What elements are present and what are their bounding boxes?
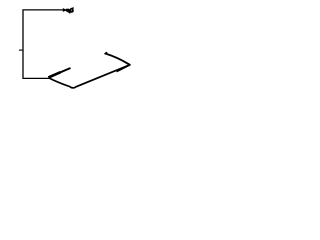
loop front edge A-B-C with bend at B	[49, 65, 130, 88]
wire: support frame (top rail, vertical post, bottom rail)	[23, 10, 63, 79]
loop far edge C-D	[106, 53, 130, 65]
tick	[19, 49, 23, 51]
arrow barb at node C	[117, 65, 130, 72]
knob blob at arrow tip	[67, 7, 74, 13]
loop rear-edge partial segment from node A	[48, 68, 70, 77]
junction fill between arrowhead and knob	[66, 9, 68, 12]
arrow barb at node A	[48, 72, 60, 77]
arrowhead (top, pointing right)	[63, 8, 68, 12]
